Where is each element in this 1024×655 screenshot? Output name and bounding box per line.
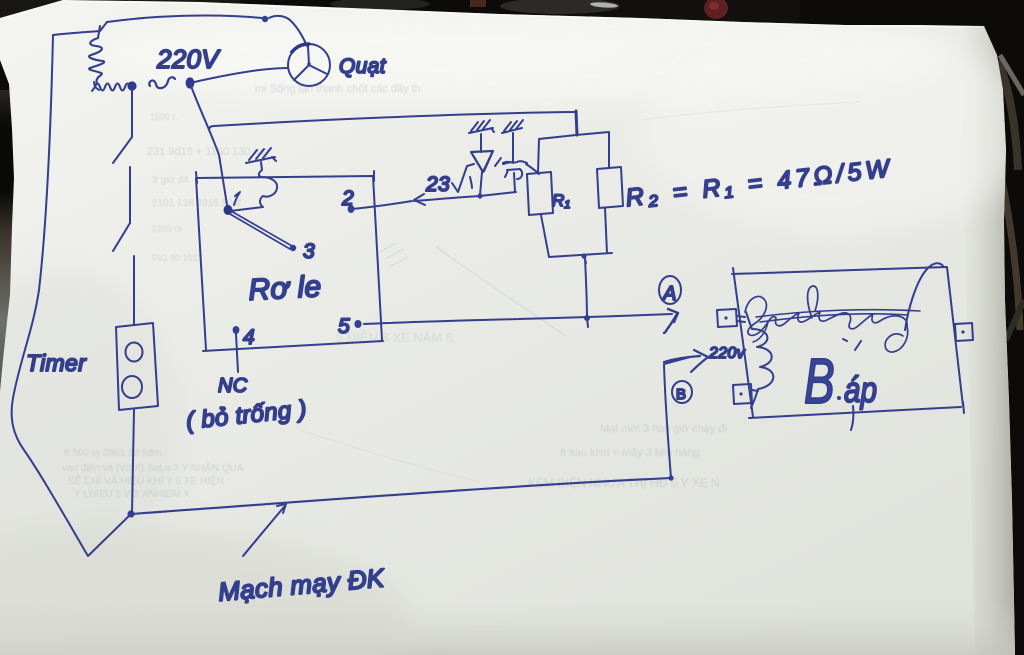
svg-text:Mạt mới 3 hay giờ chạy đi: Mạt mới 3 hay giờ chạy đi: [600, 423, 727, 435]
wire between switches: [129, 167, 131, 223]
inductor line filter coil: [89, 26, 104, 84]
relay coil body: [230, 162, 277, 211]
wire timer to bottom node: [132, 410, 134, 513]
svg-text:231 9đ15 + 1150 130 mg: 231 9đ15 + 1150 130 mg: [147, 146, 269, 158]
svg-text:vao điện và (VI5X) SoLo 3 Y NH: vao điện và (VI5X) SoLo 3 Y NHẬN QUA: [62, 461, 244, 474]
wire coil to switch: [131, 89, 133, 137]
switch blade 1: [113, 137, 132, 163]
transformer winding: [746, 312, 773, 408]
node on pin5 wire: [584, 315, 590, 321]
timer contact circle 1: [126, 343, 143, 362]
wire resistor bottom: [549, 253, 612, 257]
node bottom right corner: [668, 475, 673, 480]
wire to resistor network top: [209, 112, 575, 130]
node A circle: [659, 276, 681, 304]
terminal square right: [955, 323, 973, 341]
wire 220V node to fan: [190, 68, 288, 83]
svg-text:4: 4: [243, 326, 255, 349]
svg-text:23: 23: [425, 173, 450, 196]
stray pen flourish: [905, 263, 943, 330]
node top rail junction: [262, 16, 268, 22]
wire up to node B area: [664, 357, 690, 478]
svg-text:3 giờ đ4: 3 giờ đ4: [152, 175, 189, 186]
resistor R1 lead: [538, 139, 539, 173]
node resistor bottom: [581, 253, 586, 258]
wire 220V node to relay pin1: [191, 86, 227, 205]
LED hatching: [469, 120, 494, 133]
right background cables: [998, 60, 1018, 170]
wire left rail: [12, 35, 131, 556]
svg-text:Quạt: Quạt: [339, 55, 387, 78]
arrow node A: [664, 309, 678, 333]
node LED bottom: [477, 193, 482, 198]
strike through lines: [756, 310, 920, 322]
svg-text:5: 5: [338, 315, 350, 338]
svg-text:NC: NC: [218, 375, 248, 397]
small dot and tick: [843, 339, 861, 350]
SCR hatching: [502, 120, 523, 133]
svg-text:Timer: Timer: [26, 350, 87, 376]
relay coil hatching: [246, 148, 276, 163]
node B circle: [672, 381, 692, 403]
relay pin 5: [354, 320, 361, 328]
wire bottom rail: [131, 478, 671, 514]
switch blade 2: [113, 223, 130, 251]
relay pin 1: [224, 205, 233, 215]
arrow to 220v terminal: [664, 350, 708, 372]
crossed out word: [745, 297, 907, 336]
SCR Q1: [503, 133, 527, 192]
svg-text:mi Sống lận thanh chốt các đây: mi Sống lận thanh chốt các đây th: [255, 83, 421, 95]
relay armature: [230, 211, 292, 249]
resistor R1: [527, 172, 553, 215]
svg-text:A: A: [662, 283, 677, 305]
svg-text:Rơ le: Rơ le: [248, 270, 323, 307]
resistor network top tick: [576, 111, 577, 135]
terminal square top-left: [717, 309, 737, 327]
svg-text:B: B: [676, 386, 686, 403]
terminal square bottom-left: [733, 384, 752, 404]
relay pin 3: [290, 245, 296, 251]
faint pencil scribble: [380, 243, 408, 266]
fan motor M1: [288, 44, 330, 86]
svg-text:SẼ CHỈ VÀ HIỆU KHÍ Y 5 XE HIỆN: SẼ CHỈ VÀ HIỆU KHÍ Y 5 XE HIỆN: [68, 474, 224, 487]
LED D1: [480, 134, 482, 152]
wire top-left corner: [53, 22, 107, 35]
relay pin 4: [233, 326, 240, 334]
node coil output: [127, 81, 136, 90]
node bottom left junction: [127, 510, 134, 517]
svg-text:KÈM ĐIỆN NHỰA THỊ HĐ 5 Y XE N: KÈM ĐIỆN NHỰA THỊ HĐ 5 Y XE N: [528, 475, 720, 490]
wire pin2 to LED: [352, 192, 516, 209]
relay pin 2: [348, 205, 355, 213]
svg-text:B: B: [804, 346, 835, 417]
red knob in background: [704, 0, 728, 19]
resistor R1 lead bottom: [541, 215, 549, 257]
svg-text:220V: 220V: [156, 44, 221, 74]
svg-text:220v: 220v: [708, 345, 746, 362]
resistor R2 lead top: [608, 133, 610, 167]
wire top rail: [107, 15, 262, 22]
label R2 = R1 = 47ohm 5W: [624, 154, 894, 212]
timer contact circle 2: [122, 376, 142, 398]
relay box: [196, 171, 383, 351]
svg-text:5100 0t: 5100 0t: [152, 224, 183, 234]
wire switch to timer: [133, 256, 135, 325]
svg-text:8 500 tạ 0961 3đ 5đm: 8 500 tạ 0961 3đ 5đm: [64, 448, 161, 459]
wire top rail to fan: [269, 16, 307, 46]
resistor R2: [597, 167, 623, 208]
svg-text:1500 t.: 1500 t.: [150, 112, 178, 122]
timer box: [116, 323, 158, 410]
transformer B.ap box: [732, 267, 964, 418]
faint show-through printed text: [62, 83, 727, 500]
resistor R2 lead bottom: [605, 208, 607, 253]
label AC tilde: [149, 77, 175, 88]
left background strip: [0, 90, 15, 430]
svg-text:PIG 90 1917: PIG 90 1917: [152, 253, 203, 263]
wire resistor node down: [585, 258, 588, 327]
wire pin5 rail: [364, 314, 672, 324]
node 220V junction: [186, 77, 195, 88]
label B.ap: [804, 346, 835, 417]
creases: [436, 247, 566, 336]
svg-text:3: 3: [303, 240, 315, 263]
svg-text:áp: áp: [844, 369, 877, 409]
svg-text:8 sao lươi + mấy 3 liêu hàng: 8 sao lươi + mấy 3 liêu hàng: [560, 447, 700, 459]
svg-text:R₁: R₁: [552, 191, 570, 210]
wire resistor top: [539, 132, 609, 139]
svg-text:2: 2: [341, 187, 354, 210]
arrow to bottom rail: [243, 504, 286, 556]
